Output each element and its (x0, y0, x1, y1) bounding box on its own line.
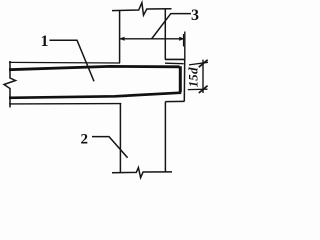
leader for label 3 (152, 14, 192, 39)
dimension line 15d (202, 60, 204, 93)
wire column top line with break symbol (112, 3, 172, 16)
anchorage line (node 3 target) with end arrows (120, 38, 185, 40)
wire step top of joint stub (165, 58, 185, 60)
wire beam top edge right segment (165, 62, 184, 65)
rebar top bar 15d bend-down (179, 66, 182, 92)
wire beam bottom edge right corner segment (165, 100, 184, 102)
dimension tick top (199, 60, 208, 67)
wire beam left-end vertical with break symbol (4, 61, 16, 108)
leader for label 2 (92, 137, 128, 158)
svg-text:1: 1 (41, 33, 49, 50)
dimension top cross line (189, 62, 208, 65)
tick at anchorage right end (183, 34, 185, 47)
column upper right face (164, 9, 166, 60)
column lower right face (164, 102, 166, 173)
wire column bottom line with break symbol (112, 168, 172, 178)
rebar top bar (9, 66, 180, 69)
svg-text:3: 3 (191, 7, 199, 24)
dimension tick bottom (199, 86, 208, 93)
wire beam right edge upper extension (184, 32, 186, 60)
dimension bottom cross line (188, 88, 208, 90)
svg-text:2: 2 (81, 132, 89, 148)
wire beam bottom edge left segment (9, 103, 121, 105)
wire beam right edge (183, 59, 185, 101)
rebar bottom bar (9, 93, 181, 98)
column lower left face (119, 104, 121, 173)
leader for label 1 (50, 40, 95, 81)
wire beam top edge left segment (9, 61, 120, 64)
svg-text:15d: 15d (186, 67, 201, 87)
column upper left face (119, 10, 121, 63)
